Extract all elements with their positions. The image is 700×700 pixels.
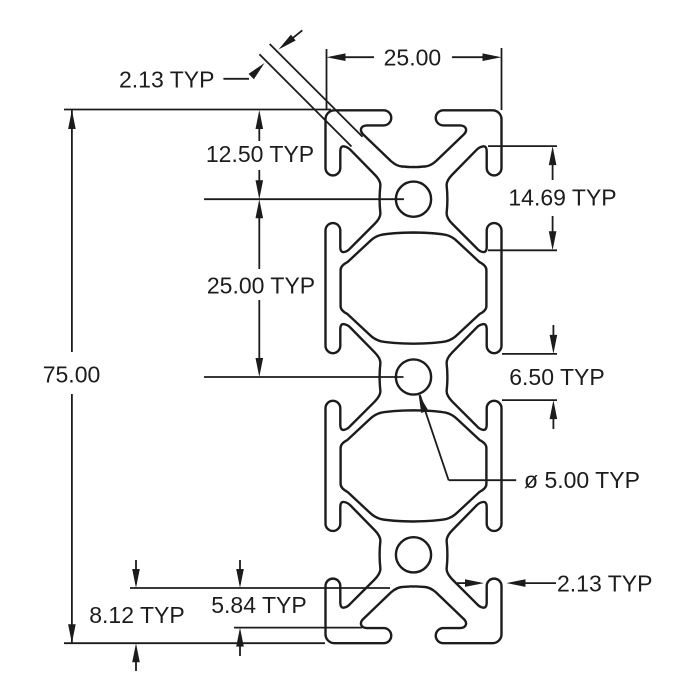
svg-text:2.13 TYP: 2.13 TYP [557,571,652,597]
svg-text:6.50 TYP: 6.50 TYP [509,364,604,390]
extrusion profile outer outline with T-slots (right half) [414,110,502,643]
center hole 2 (diameter 5.00) [396,359,431,394]
dimension 75.00 overall height (left) [43,110,331,644]
leader 2.13 TYP web thickness callout (top left) [119,30,363,146]
dimension 5.84 TYP slot cavity to lip underside (bottom) [130,560,390,656]
svg-text:12.50 TYP: 12.50 TYP [206,141,314,167]
svg-text:25.00 TYP: 25.00 TYP [207,273,315,299]
svg-text:ø 5.00 TYP: ø 5.00 TYP [524,467,640,493]
interior octagonal cavity between modules 2 and 3 [341,410,487,521]
center hole 3 (diameter 5.00) [396,537,431,572]
dimension 25.00 TYP hole centre spacing [204,199,404,377]
svg-text:2.13 TYP: 2.13 TYP [119,67,214,93]
svg-text:14.69 TYP: 14.69 TYP [508,185,616,211]
dimension 25.00 overall width (top) [327,45,502,111]
center hole 1 (diameter 5.00) [396,182,431,217]
dimension 12.50 TYP top face to first hole centre [204,110,404,199]
svg-text:75.00: 75.00 [43,362,101,388]
svg-text:25.00: 25.00 [384,45,442,71]
dimension 6.50 TYP slot opening width (right) [502,325,605,429]
dimension 2.13 TYP slot lip wall thickness (bottom right) [457,571,652,597]
dimension 14.69 TYP between slot lip hooks (right) [488,146,617,250]
extrusion profile outer outline with T-slots (left half, mirrored) [326,110,414,643]
interior octagonal cavity between modules 1 and 2 [341,233,487,344]
svg-text:8.12 TYP: 8.12 TYP [89,602,184,628]
dimension 8.12 TYP bottom face to slot cavity [89,560,184,671]
leader diameter 5.00 TYP centre hole callout [419,394,640,493]
svg-text:5.84 TYP: 5.84 TYP [211,592,306,618]
